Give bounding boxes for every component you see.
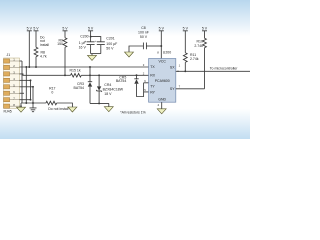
wire TY/RY pin link <box>144 83 149 92</box>
svg-text:1 µF: 1 µF <box>79 41 86 45</box>
node dot CR5 on W2 <box>136 74 138 76</box>
svg-text:RJ45: RJ45 <box>4 109 12 113</box>
wire SY to R10 <box>176 88 205 90</box>
svg-text:4.7k: 4.7k <box>40 54 47 58</box>
node dot CR3 on W1 <box>89 66 91 68</box>
label CR5 BAT54 <box>116 75 126 83</box>
svg-text:5 V: 5 V <box>62 27 68 31</box>
U200 internal labels <box>150 60 175 102</box>
wire pin1 stub to vertical <box>20 60 23 62</box>
node dot pin7 <box>30 99 32 101</box>
power 5V #1 <box>27 27 33 67</box>
node dot pin4 <box>30 79 32 81</box>
node dot CR4 on W2 <box>98 74 100 76</box>
svg-text:C200: C200 <box>80 35 88 39</box>
node dot pin2 column bottom <box>25 102 27 104</box>
label C8 100 nF 50 V <box>138 26 149 39</box>
power 5V #6 (R11) <box>183 27 189 53</box>
svg-text:5 V: 5 V <box>88 27 94 31</box>
svg-text:install: install <box>40 43 49 47</box>
svg-text:C201: C201 <box>106 36 114 40</box>
label CR4 BZX84C18W 18 V <box>103 83 124 96</box>
svg-text:50 V: 50 V <box>106 46 114 50</box>
wire pin5 stub <box>20 86 34 88</box>
diode CR4 zener from W2 <box>96 75 102 103</box>
connector J1 internal pin lines <box>10 61 20 106</box>
pin numbers left <box>143 63 147 92</box>
svg-text:0: 0 <box>51 90 53 94</box>
node dot R8 on W1 <box>35 66 37 68</box>
svg-text:18 V: 18 V <box>104 92 112 96</box>
ground under C200/C201 <box>88 54 97 61</box>
capacitor C201 <box>97 42 105 54</box>
connector J1 RJ45 body <box>4 58 20 108</box>
svg-text:5 V: 5 V <box>27 27 33 31</box>
capacitor C8 with ground <box>125 43 162 58</box>
svg-text:SX: SX <box>170 65 175 69</box>
node dot CR3 bridge on W2 <box>89 74 91 76</box>
resistor R17 zigzag <box>46 101 57 105</box>
diode CR3 vertical from W1 <box>88 67 92 103</box>
resistor R11 <box>183 53 187 72</box>
svg-text:To microcontroller: To microcontroller <box>210 66 238 70</box>
svg-text:U200: U200 <box>163 50 171 54</box>
svg-text:50 V: 50 V <box>140 35 148 39</box>
ground rail CR3/CR4 <box>90 102 109 104</box>
node dot pin5 <box>32 86 34 88</box>
label R9 150 <box>57 38 63 46</box>
svg-text:GND: GND <box>158 97 166 101</box>
svg-text:5 V: 5 V <box>183 27 189 31</box>
svg-text:150: 150 <box>57 42 63 46</box>
label C201 <box>106 36 117 50</box>
wire pin8 stub <box>20 105 23 107</box>
svg-text:SY: SY <box>170 87 175 91</box>
svg-text:5 V: 5 V <box>159 27 165 31</box>
node dot C8/VCC <box>160 45 162 47</box>
svg-text:5 V: 5 V <box>33 27 39 31</box>
svg-text:C8: C8 <box>141 26 146 30</box>
svg-text:RX: RX <box>150 73 156 77</box>
svg-text:BZX84C18W: BZX84C18W <box>103 88 124 92</box>
earth ground at bus <box>30 103 37 112</box>
svg-text:TX: TX <box>150 65 155 69</box>
pin numbers right <box>179 63 181 88</box>
svg-text:PCA9600: PCA9600 <box>155 79 170 83</box>
wire vertical pin5 down to ground bus <box>32 87 34 103</box>
connector J1 pin boxes <box>4 59 10 108</box>
resistor R10 <box>203 38 207 89</box>
wire pin4 stub <box>20 79 31 81</box>
pin 4 wire and ground <box>157 102 166 114</box>
power 5V #3 <box>62 27 68 38</box>
wire vertical pin2 column down to ground bus <box>25 67 27 103</box>
label R11 2.74k <box>190 53 199 61</box>
svg-text:16 V: 16 V <box>79 45 87 49</box>
label Do not install (R8) <box>40 36 49 47</box>
node dot R9 on W2 <box>64 74 66 76</box>
node dot ground bus at earth <box>32 102 34 104</box>
wire C200/C201 bottoms joined <box>91 53 101 55</box>
svg-text:CR4: CR4 <box>104 83 111 87</box>
svg-text:2.74k: 2.74k <box>194 44 203 48</box>
node dot C200 top <box>90 36 92 38</box>
wire W2 continues from R15 to U200 RX <box>81 74 148 76</box>
ground triangle at RJ45 bus <box>17 103 26 112</box>
svg-text:RY: RY <box>150 91 155 95</box>
node dot 5V#1 on W1 <box>28 66 30 68</box>
diode CR5 from W2 <box>134 75 143 96</box>
connector J1 pin numbers <box>13 58 15 107</box>
power 5V #7 (R10) <box>202 27 208 39</box>
svg-text:100 µF: 100 µF <box>106 42 117 46</box>
wire pin6 stub <box>20 92 25 94</box>
wire vertical from pin1 down to ground bus <box>21 61 23 103</box>
ground under rail <box>104 103 113 111</box>
wire SX to microcontroller <box>176 70 250 72</box>
wire pin7 stub <box>20 99 31 101</box>
ground triangle after R17 <box>68 107 77 112</box>
wire R17 to ground <box>57 103 73 107</box>
label R8 value <box>40 50 47 58</box>
svg-text:BAT54: BAT54 <box>116 79 126 83</box>
svg-text:100 nF: 100 nF <box>138 31 149 35</box>
capacitor C200 <box>87 42 95 54</box>
wire to C201 top <box>91 37 101 42</box>
label R10 2.74k <box>194 40 203 48</box>
svg-text:5 V: 5 V <box>202 27 208 31</box>
svg-text:VCC: VCC <box>159 60 167 64</box>
resistor R9 <box>63 38 67 76</box>
wire W2 lower bus (RX line) from pin3 jog to R15 <box>20 74 71 75</box>
label C200 <box>79 35 89 50</box>
svg-text:2.74k: 2.74k <box>190 57 199 61</box>
label CR3 BAT54 <box>74 82 84 90</box>
node dot CR4 on ground rail <box>98 102 100 104</box>
wire W1 top bus (TX line) from pin2 to U200 TX <box>20 66 149 68</box>
ground bus and R17 wire <box>21 102 46 104</box>
power 5V #5 (VCC) <box>159 27 165 59</box>
power 5V #2 <box>33 27 39 48</box>
svg-text:R15 1k: R15 1k <box>70 69 81 73</box>
svg-text:BAT54: BAT54 <box>74 86 84 90</box>
svg-text:Do not install: Do not install <box>48 107 68 111</box>
power 5V #4 (C200 rail) <box>88 27 94 42</box>
resistor R8 (do not install) <box>34 47 38 67</box>
pin 1 dot <box>177 71 178 72</box>
wire vertical pin4 to pin7 <box>30 80 32 99</box>
label R17 0 <box>49 86 55 94</box>
node dot SX/R11 <box>184 70 186 72</box>
resistor R15 zigzag in W2 <box>71 74 82 78</box>
node dot pin2 column top <box>25 66 27 68</box>
op-amp U200 PCA9600 body <box>149 59 176 103</box>
svg-text:J1: J1 <box>7 53 11 57</box>
svg-text:*All resistors 1%: *All resistors 1% <box>120 110 145 114</box>
svg-text:TY: TY <box>150 84 155 88</box>
